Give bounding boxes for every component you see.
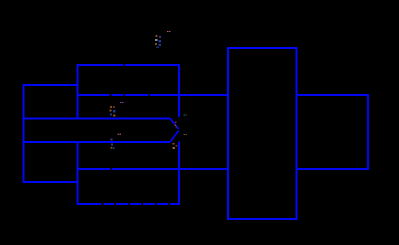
shaft top line	[24, 118, 171, 120]
hub bottom edge	[77, 203, 180, 205]
label d3 (smudged small text on shaft lower line)	[110, 139, 114, 150]
hub top edge	[77, 64, 180, 66]
shaft bottom line	[24, 141, 171, 143]
hub left edge lower segment	[77, 143, 79, 205]
right shaft journal	[297, 95, 368, 169]
tick marks right of shaft tip lower	[184, 134, 187, 135]
hub right edge lower segment	[178, 142, 180, 205]
shaft tip upper chamfer	[170, 119, 179, 130]
label d1 (smudged small text above hub)	[155, 35, 161, 48]
left collar top edge	[23, 84, 78, 86]
label below tip (smudged)	[173, 143, 178, 149]
tick marks right of shaft tip upper	[184, 114, 187, 115]
label dots above d2	[120, 102, 124, 103]
large block (bearing housing)	[228, 48, 297, 219]
wire: sleeve bottom line	[78, 168, 229, 170]
hub right edge upper segment	[178, 64, 180, 117]
left collar bottom edge	[23, 181, 78, 183]
shaft tip lower chamfer	[170, 131, 179, 143]
label dots right of d3	[117, 134, 121, 135]
left collar left edge	[23, 84, 25, 183]
label tick marks right of d1	[167, 31, 171, 32]
wire: sleeve top line	[78, 94, 229, 96]
speckles on tip chamfer	[175, 122, 177, 128]
label d2 (smudged small text above shaft)	[110, 106, 116, 117]
hub left edge upper segment	[77, 64, 79, 118]
